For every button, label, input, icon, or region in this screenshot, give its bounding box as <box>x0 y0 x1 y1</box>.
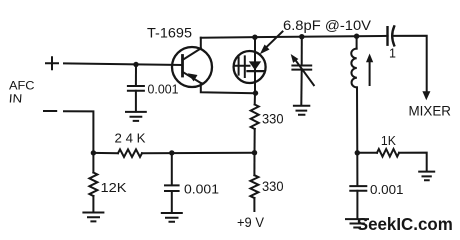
svg-text:0.001: 0.001 <box>370 182 404 197</box>
svg-text:1K: 1K <box>381 133 396 148</box>
ground G7 <box>346 219 368 227</box>
svg-text:AFC: AFC <box>9 79 35 93</box>
svg-text:MIXER: MIXER <box>409 103 452 118</box>
resistor R3 2.4K <box>93 152 118 154</box>
svg-text:+9 V: +9 V <box>237 215 264 230</box>
inductor L1 <box>356 36 358 48</box>
junction dot rail-varcap <box>299 34 304 39</box>
label arrow to varactor <box>265 32 283 50</box>
svg-text:T-1695: T-1695 <box>147 25 192 41</box>
wire: top rail <box>201 36 388 38</box>
ground G4 <box>162 213 182 222</box>
node AFC IN plus terminal <box>46 57 58 69</box>
junction dot emitter node <box>253 90 258 95</box>
svg-text:2 4 K: 2 4 K <box>115 131 146 146</box>
svg-text:IN: IN <box>8 92 22 106</box>
junction dot rail-varactor <box>252 35 257 40</box>
svg-text:6.8pF @-10V: 6.8pF @-10V <box>283 17 372 33</box>
junction dot node E <box>169 150 174 155</box>
resistor R5 1K <box>357 152 377 154</box>
svg-text:0.001: 0.001 <box>184 181 219 196</box>
junction dot rail-inductor <box>354 34 359 39</box>
capacitor C3 0.001 right <box>356 153 358 186</box>
svg-text:330: 330 <box>262 178 284 194</box>
capacitor C5 0.001 mid <box>171 153 173 185</box>
svg-text:330: 330 <box>262 111 284 127</box>
svg-text:0.001: 0.001 <box>148 82 179 97</box>
ground G5 <box>294 106 309 115</box>
junction dot node A <box>133 62 138 67</box>
svg-text:12K: 12K <box>101 180 127 195</box>
resistor R4 12K <box>92 153 94 173</box>
wire: collector riser <box>200 38 202 49</box>
ground G2 <box>83 213 103 222</box>
wire: node row <box>142 152 255 155</box>
ground G6 <box>419 172 434 181</box>
svg-text:1: 1 <box>389 47 396 61</box>
transistor Q1 T-1695 (PNP) <box>172 47 212 87</box>
varactor diode D1 <box>234 51 266 83</box>
svg-text:SeekIC.com: SeekIC.com <box>357 214 453 234</box>
variable capacitor C2 <box>301 37 303 66</box>
junction dot node B <box>252 150 257 155</box>
junction dot node C <box>355 150 360 155</box>
node AFC IN minus terminal <box>44 110 56 112</box>
capacitor C1 0.001 from node A to ground <box>135 65 137 86</box>
ground G1 <box>126 112 146 121</box>
wire: minus input down to node D <box>64 111 93 153</box>
capacitor C4 1pF coupling <box>386 27 388 45</box>
wire: plus input to transistor base <box>64 63 183 65</box>
resistor R1 330 upper <box>254 93 256 104</box>
tuning arrow of L1 <box>369 58 371 85</box>
mixer output arrow <box>422 91 430 100</box>
wire: cap to mixer corner <box>393 36 427 92</box>
wire: emitter drop and bottom wire <box>201 83 256 93</box>
resistor R2 330 lower <box>253 153 255 176</box>
junction dot node D <box>91 150 96 155</box>
